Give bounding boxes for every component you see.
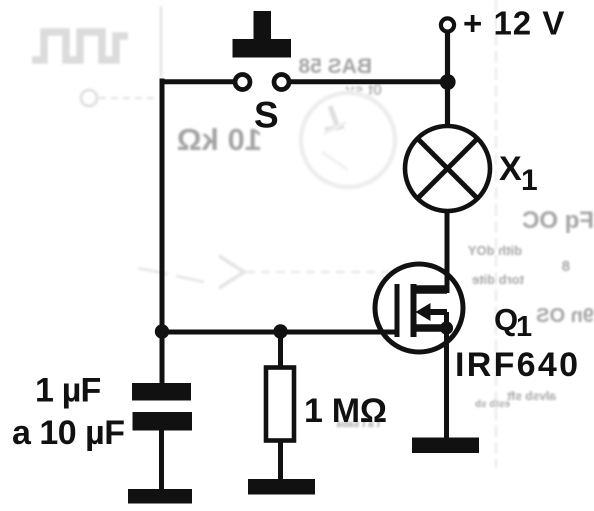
svg-text:9n OS: 9n OS bbox=[536, 305, 594, 327]
faint mirrored text right margin bbox=[522, 207, 594, 234]
svg-text:+ 12 V: + 12 V bbox=[463, 5, 565, 42]
svg-text:10 kΩ: 10 kΩ bbox=[177, 122, 262, 157]
faint mirrored text row top-middle bbox=[298, 55, 372, 78]
capacitor C1 (1 µF a 10 µF) bbox=[128, 332, 192, 504]
wire: source down to ground bbox=[444, 312, 449, 441]
wire: lamp to drain bbox=[445, 212, 450, 293]
switch terminal right bbox=[274, 75, 289, 90]
node: source junction dot bbox=[440, 321, 453, 334]
svg-text:1 MΩ: 1 MΩ bbox=[304, 392, 387, 430]
ground (capacitor) bbox=[128, 489, 192, 504]
ground (MOSFET source) bbox=[412, 438, 479, 454]
node A: capacitor junction bbox=[155, 324, 169, 338]
svg-text:S: S bbox=[254, 95, 279, 136]
svg-text:1: 1 bbox=[521, 164, 538, 197]
drain arm bbox=[414, 285, 447, 294]
body arm with arrow bbox=[416, 303, 431, 321]
svg-text:a 10 µF: a 10 µF bbox=[12, 414, 124, 452]
wire: switch right terminal to +12V node bbox=[288, 79, 448, 84]
resistor body bbox=[266, 368, 294, 441]
svg-text:Q: Q bbox=[494, 302, 518, 337]
faint dashed arrow bleed left of mosfet bbox=[138, 268, 204, 282]
pushbutton S actuator bbox=[233, 11, 292, 58]
lamp X1 bbox=[405, 126, 490, 211]
faint mirrored 10 kΩ text bbox=[177, 122, 262, 157]
svg-text:8: 8 bbox=[562, 258, 570, 275]
svg-text:X: X bbox=[499, 150, 522, 188]
bottom plate bbox=[133, 412, 193, 431]
wire: +12V terminal down to node bbox=[445, 32, 450, 127]
wire: left vertical drop to rail bbox=[160, 79, 165, 333]
wire: gate rail bbox=[162, 330, 397, 335]
svg-text:1 µF: 1 µF bbox=[35, 372, 101, 410]
faint transistor circle bleed bbox=[301, 93, 395, 187]
faint vertical line above wire corner bbox=[160, 6, 163, 78]
faint page rule line right bbox=[495, 0, 497, 468]
wire: junction to top plate bbox=[160, 332, 165, 384]
node B: resistor junction bbox=[273, 324, 287, 338]
+12V supply terminal bbox=[441, 18, 454, 31]
faint terminal circle with dashed lead bbox=[81, 90, 97, 106]
wire: bottom plate to ground bbox=[159, 430, 164, 491]
svg-text:1: 1 bbox=[516, 311, 532, 343]
svg-text:alvsb sft: alvsb sft bbox=[507, 389, 556, 403]
channel bar bbox=[411, 284, 417, 337]
svg-text:estb sb: estb sb bbox=[475, 399, 510, 410]
node: +12V junction dot bbox=[440, 74, 456, 90]
wire: resistor bottom to ground bbox=[278, 440, 283, 481]
svg-text:torb dite: torb dite bbox=[472, 272, 524, 287]
svg-text:Fq OC: Fq OC bbox=[522, 207, 594, 234]
ground (resistor) bbox=[248, 479, 315, 495]
resistor R1 (1 MΩ) bbox=[248, 332, 315, 495]
wire: junction to resistor top bbox=[278, 332, 283, 369]
faint pulse-train watermark top-left bbox=[32, 32, 128, 60]
svg-text:IRF640: IRF640 bbox=[455, 346, 580, 384]
top plate bbox=[132, 383, 191, 401]
source arm bbox=[414, 324, 448, 332]
svg-text:BAS 58: BAS 58 bbox=[298, 55, 372, 78]
gate bar bbox=[395, 284, 400, 337]
wire: switch left terminal to corner bbox=[164, 79, 236, 84]
switch terminal left bbox=[235, 75, 250, 90]
svg-text:dith dOY: dith dOY bbox=[468, 243, 522, 258]
transistor Q1 (power MOSFET IRF640) bbox=[375, 264, 463, 352]
